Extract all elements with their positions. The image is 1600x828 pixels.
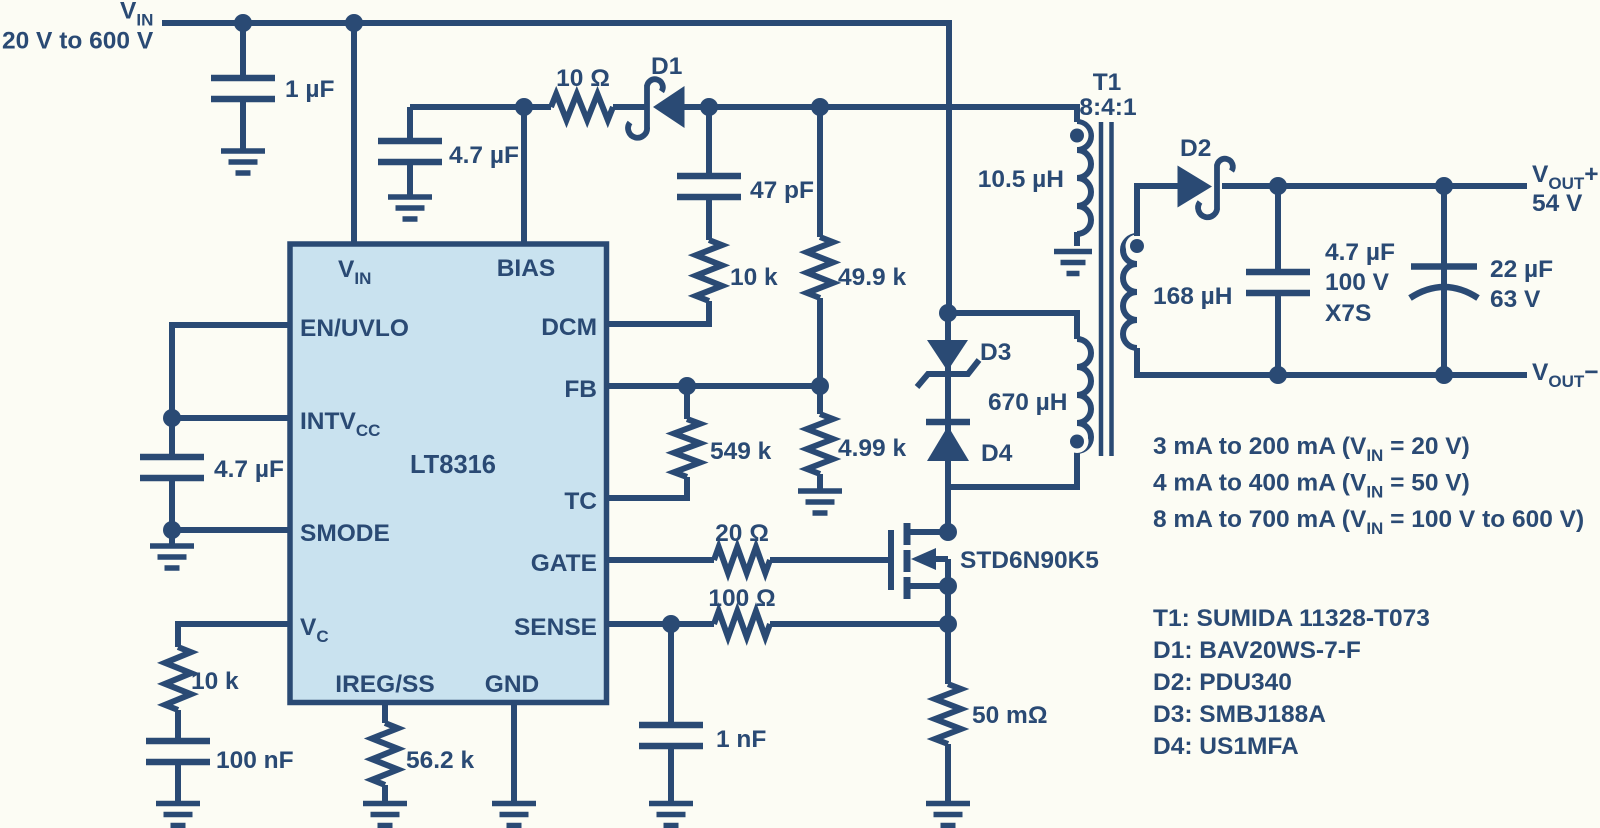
- phase dot bias winding: [1066, 124, 1089, 147]
- svg-text:10 k: 10 k: [730, 264, 778, 291]
- wire R-SENSE to Q1 source: [770, 621, 948, 627]
- wire primary top: [948, 313, 1077, 339]
- svg-text:D4: US1MFA: D4: US1MFA: [1153, 733, 1299, 760]
- svg-text:BIAS: BIAS: [497, 255, 556, 282]
- svg-text:GATE: GATE: [531, 550, 597, 577]
- wire secondary top: [1137, 186, 1178, 236]
- svg-text:GND: GND: [485, 671, 539, 698]
- wire GATE pin: [606, 557, 714, 563]
- wire C-BIAS to ground: [407, 162, 413, 196]
- svg-text:47 pF: 47 pF: [750, 177, 814, 204]
- svg-text:54 V: 54 V: [1532, 190, 1583, 217]
- ground under C-IN: [221, 151, 265, 173]
- wire C-BIAS drop: [407, 107, 413, 141]
- svg-text:D4: D4: [981, 440, 1013, 467]
- svg-text:T1: SUMIDA 11328-T073: T1: SUMIDA 11328-T073: [1153, 605, 1430, 632]
- wire D1 to winding top: [684, 107, 1077, 122]
- svg-text:LT8316: LT8316: [410, 451, 496, 479]
- wire TC pin: [606, 477, 687, 498]
- capacitor C-VC 100nF: [146, 741, 210, 762]
- wire R-VC to C-VC: [175, 710, 181, 741]
- junction BIAS pin: [515, 98, 533, 116]
- wire C-OUT2 drop: [1441, 186, 1447, 375]
- junction Q1 source: [939, 577, 957, 595]
- svg-text:EN/UVLO: EN/UVLO: [300, 315, 409, 342]
- phase dot primary winding: [1066, 430, 1089, 453]
- wire R-FB1 to FB node: [817, 298, 823, 386]
- svg-text:SMODE: SMODE: [300, 520, 390, 547]
- op-amp U1 LT8316 body: [290, 244, 607, 703]
- wire R-GATE to Q1 gate: [770, 557, 891, 563]
- svg-text:168 µH: 168 µH: [1153, 283, 1233, 310]
- wire FB node to R-FB3: [817, 386, 823, 414]
- junction C-OUT1 bottom: [1269, 366, 1287, 384]
- junction SENSE tap: [939, 615, 957, 633]
- phase dot secondary winding: [1126, 235, 1149, 258]
- svg-text:D3: SMBJ188A: D3: SMBJ188A: [1153, 701, 1326, 728]
- wire VOUT+ rail: [1222, 183, 1527, 189]
- capacitor C-DCM 47pF: [677, 176, 741, 197]
- svg-text:1 µF: 1 µF: [285, 76, 335, 103]
- diode D2 PDU340: [1178, 166, 1213, 208]
- resistor R-GATE 20 Ohm: [714, 547, 770, 573]
- wire VIN top rail: [162, 23, 949, 313]
- svg-text:IREG/SS: IREG/SS: [335, 671, 434, 698]
- svg-text:D1: BAV20WS-7-F: D1: BAV20WS-7-F: [1153, 637, 1361, 664]
- wire snubber to primary bottom: [948, 452, 1077, 487]
- wire INTVCC to C-INTV: [169, 418, 175, 457]
- wire R to D1: [613, 104, 648, 110]
- svg-text:D2: PDU340: D2: PDU340: [1153, 669, 1292, 696]
- ground under R-IREG: [363, 804, 407, 826]
- junction INTVCC node: [163, 409, 181, 427]
- svg-text:T1: T1: [1093, 69, 1122, 96]
- svg-text:4.7 µF: 4.7 µF: [214, 456, 284, 483]
- winding secondary 168uH: [1123, 236, 1137, 348]
- wire bias winding to ground: [1074, 232, 1080, 246]
- wire EN/UVLO: [172, 325, 290, 418]
- junction 47pF branch: [700, 98, 718, 116]
- ground under C-BIAS: [388, 197, 432, 219]
- svg-text:56.2 k: 56.2 k: [406, 747, 474, 774]
- junction SMODE node: [163, 521, 181, 539]
- svg-text:STD6N90K5: STD6N90K5: [960, 547, 1099, 574]
- svg-text:10.5 µH: 10.5 µH: [978, 166, 1064, 193]
- svg-text:10 Ω: 10 Ω: [556, 65, 610, 92]
- junction C-OUT1 top: [1269, 177, 1287, 195]
- capacitor C-OUT2 22uF polarized: [1410, 267, 1478, 299]
- wire C-VC to ground: [175, 762, 181, 803]
- junction Q1 drain: [939, 523, 957, 541]
- ground under R-CS: [926, 804, 970, 826]
- resistor R-FB3 4.99k: [807, 414, 833, 474]
- resistor R-CS 50mOhm: [935, 684, 961, 744]
- wire VC pin: [178, 624, 290, 647]
- wire R-CS to ground: [945, 744, 951, 803]
- wire source to R-CS: [945, 586, 951, 684]
- wire C-OUT1 to VOUT-: [1275, 293, 1281, 375]
- svg-text:D2: D2: [1180, 135, 1211, 162]
- svg-text:4.7 µF: 4.7 µF: [449, 142, 519, 169]
- junction C1 top: [234, 14, 252, 32]
- junction C-OUT2 top: [1435, 177, 1453, 195]
- wire SMODE pin: [172, 527, 290, 533]
- wire R-IREG to ground: [382, 785, 388, 803]
- diode D3 SMBJ188A TVS: [917, 340, 979, 387]
- transformer T1 core: [1101, 122, 1112, 456]
- wire secondary bottom: [1137, 348, 1527, 375]
- resistor R-IREG 56.2k: [372, 723, 398, 785]
- wire BIAS pin drop: [521, 107, 527, 246]
- capacitor C-SENSE 1nF: [639, 725, 703, 746]
- wire SMODE to ground: [169, 530, 175, 544]
- ground under GND pin: [492, 804, 536, 826]
- junction C-OUT2 bottom: [1435, 366, 1453, 384]
- resistor R-FB1 49.9k: [807, 237, 833, 298]
- ground under SMODE node: [150, 546, 194, 568]
- svg-text:50 mΩ: 50 mΩ: [972, 702, 1048, 729]
- svg-text:D3: D3: [980, 339, 1011, 366]
- capacitor C-BIAS 4.7uF: [378, 141, 442, 162]
- wire C-INTV to SMODE node: [169, 478, 175, 530]
- junction FB-4.99k: [811, 377, 829, 395]
- wire C-SENSE drop: [668, 624, 674, 725]
- svg-text:670 µH: 670 µH: [988, 389, 1068, 416]
- capacitor C-INTVCC 4.7uF: [140, 457, 204, 478]
- wire C1 to ground: [240, 99, 246, 150]
- svg-text:1 nF: 1 nF: [716, 726, 766, 753]
- ground under R-FB3: [798, 491, 842, 513]
- wire rail to VIN pin: [351, 23, 357, 246]
- wire C-SENSE to ground: [668, 746, 674, 803]
- svg-text:4.99 k: 4.99 k: [838, 435, 906, 462]
- diode D4 US1MFA: [926, 422, 970, 461]
- ground under C-SENSE: [649, 804, 693, 826]
- junction VIN pin: [345, 14, 363, 32]
- wire FB to R-FB2: [684, 386, 690, 419]
- diode D1 BAV20WS: [653, 86, 685, 128]
- svg-text:DCM: DCM: [541, 314, 597, 341]
- svg-text:49.9 k: 49.9 k: [838, 264, 906, 291]
- resistor R-FB2 549k: [674, 419, 700, 477]
- wire snubber chain: [945, 313, 951, 532]
- wire R-FB3 to ground: [817, 474, 823, 490]
- ground under C-VC: [156, 804, 200, 826]
- svg-text:D1: D1: [651, 53, 682, 80]
- wire bias node left segment: [410, 104, 551, 110]
- svg-text:20 V to 600 V: 20 V to 600 V: [2, 28, 154, 55]
- junction FB-549k: [678, 377, 696, 395]
- diode D2 cathode curl: [1198, 159, 1233, 217]
- resistor R-BIAS 10 Ohm: [551, 94, 613, 120]
- ground under bias winding: [1054, 252, 1092, 274]
- junction SENSE-C node: [662, 615, 680, 633]
- winding primary 670uH: [1077, 339, 1091, 451]
- capacitor C-IN 1uF: [211, 78, 275, 99]
- wire C-DCM to R-DCM: [706, 197, 712, 240]
- wire to R-FB1: [817, 107, 823, 237]
- svg-text:10 k: 10 k: [191, 668, 239, 695]
- wire IREG/SS pin: [382, 703, 388, 723]
- resistor R-DCM 10k: [696, 240, 722, 301]
- winding bias 10.5uH: [1077, 122, 1091, 234]
- junction 49.9k branch: [811, 98, 829, 116]
- svg-text:TC: TC: [564, 488, 597, 515]
- wire to C-DCM: [706, 107, 712, 176]
- diode D1 cathode curl: [628, 79, 663, 137]
- wire FB pin: [606, 383, 820, 389]
- wire DCM pin: [606, 301, 709, 324]
- svg-text:8:4:1: 8:4:1: [1079, 94, 1136, 121]
- wire GND pin: [511, 703, 517, 803]
- svg-text:FB: FB: [564, 376, 597, 403]
- wire SENSE pin: [606, 621, 714, 627]
- svg-text:100 nF: 100 nF: [216, 747, 294, 774]
- transistor Q1 STD6N90K5: [891, 523, 948, 599]
- capacitor C-OUT1 4.7uF: [1246, 272, 1310, 293]
- svg-text:20 Ω: 20 Ω: [715, 520, 769, 547]
- svg-text:549 k: 549 k: [710, 438, 772, 465]
- junction snubber top: [939, 304, 957, 322]
- wire C1 to rail: [240, 23, 246, 78]
- svg-text:SENSE: SENSE: [514, 614, 597, 641]
- resistor R-VC 10k: [165, 647, 191, 710]
- svg-text:100 Ω: 100 Ω: [708, 585, 775, 612]
- wire C-OUT1 drop: [1275, 186, 1281, 272]
- resistor R-SENSE 100 Ohm: [714, 611, 770, 637]
- wire INTVCC pin: [172, 415, 290, 421]
